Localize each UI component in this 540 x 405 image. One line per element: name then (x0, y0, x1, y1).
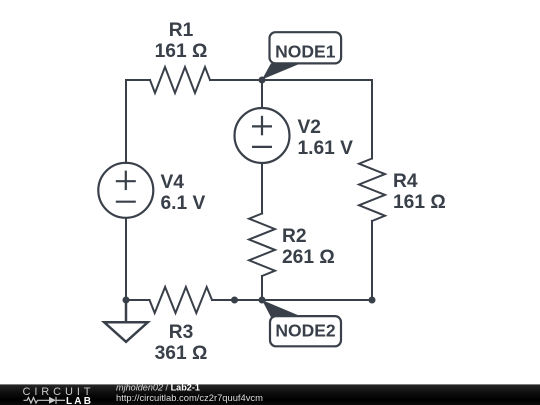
junction dot R3 right (231, 297, 238, 304)
wire R3 right to NODE2 (212, 299, 262, 301)
wire top-left: V4 top to corner to R1 left (126, 80, 150, 163)
wire R2 bottom to NODE2 (261, 276, 263, 300)
node NODE2 flag box (270, 316, 341, 346)
node NODE1 flag box (270, 32, 342, 63)
svg-text:6.1 V: 6.1 V (161, 193, 206, 214)
svg-text:V4: V4 (161, 172, 185, 193)
ground (104, 300, 148, 342)
svg-text:R3: R3 (169, 322, 194, 343)
wire ground junction to R3 left (126, 299, 150, 301)
svg-text:V2: V2 (298, 117, 321, 138)
svg-text:361 Ω: 361 Ω (155, 343, 208, 364)
svg-text:261 Ω: 261 Ω (282, 247, 335, 268)
node NODE2 flag pointer (262, 300, 303, 317)
svg-text:http://circuitlab.com/cz2r7quu: http://circuitlab.com/cz2r7quuf4vcm (116, 392, 263, 403)
wire NODE1 to top-right corner down to R4 top (262, 80, 372, 159)
svg-text:R4: R4 (393, 171, 418, 192)
resistor R3 (150, 287, 213, 313)
svg-text:LAB: LAB (66, 396, 93, 405)
svg-text:NODE1: NODE1 (275, 42, 336, 62)
junction dot ground (123, 297, 130, 304)
resistor R1 (150, 67, 210, 93)
svg-text:161 Ω: 161 Ω (393, 192, 446, 213)
wire R4 bottom to bottom-right junction (371, 221, 373, 300)
resistor R2 (249, 214, 275, 277)
svg-text:NODE2: NODE2 (275, 321, 336, 341)
footer CircuitLab logo circuit glyph (24, 397, 66, 404)
wire R1 right to NODE1 (210, 79, 262, 81)
svg-text:161 Ω: 161 Ω (155, 41, 208, 62)
junction dot bottom-right (369, 297, 376, 304)
wire V2 bottom to R2 top (261, 163, 263, 214)
junction dot NODE2 (259, 297, 266, 304)
svg-text:1.61 V: 1.61 V (298, 138, 354, 159)
footer bar (0, 384, 540, 405)
wire NODE2 to bottom-right junction (262, 299, 372, 301)
voltage source V4 (98, 163, 153, 218)
wire V4 bottom to ground junction (125, 218, 127, 300)
svg-text:mjholden02 / Lab2-1: mjholden02 / Lab2-1 (116, 383, 200, 393)
voltage source V2 (235, 108, 290, 163)
resistor R4 (359, 159, 385, 222)
wire NODE1 down to V2 top (261, 80, 263, 108)
node NODE1 flag pointer (262, 63, 301, 79)
svg-text:R1: R1 (169, 20, 194, 41)
svg-text:R2: R2 (282, 226, 307, 247)
junction dot NODE1 (259, 77, 266, 84)
